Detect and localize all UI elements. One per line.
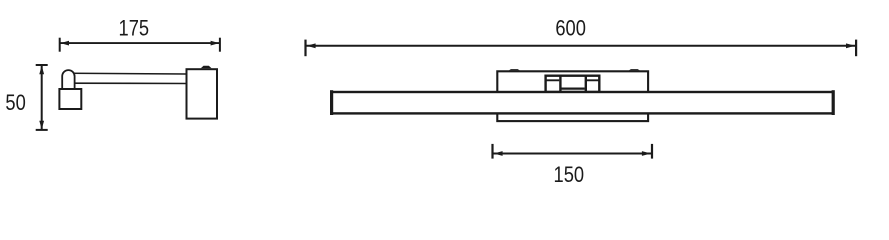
wall plate side view: [187, 69, 218, 118]
lamp head arch: [62, 70, 74, 89]
dim 150 line: [493, 153, 653, 155]
dim 150 right tick: [651, 144, 653, 159]
dim 175 right tick: [219, 38, 221, 52]
dim 600 right tick: [855, 40, 857, 57]
dim 175 left arrow: [60, 41, 69, 46]
lamp arm top line: [70, 72, 187, 75]
lamp bar left end cap: [330, 90, 333, 115]
dim 175 text: [119, 17, 150, 41]
svg-text:600: 600: [555, 17, 586, 41]
terminal divider left: [559, 75, 561, 93]
plate screw left: [509, 69, 520, 70]
terminal block outer: [546, 76, 600, 92]
lamp head body: [59, 89, 81, 109]
lamp bar right end cap: [832, 90, 835, 115]
dim 150 left arrow: [494, 151, 503, 156]
dim 175 left tick: [59, 38, 61, 52]
dim 175 right arrow: [211, 41, 220, 46]
dim 50 text: [5, 92, 25, 116]
wall plate front view: [497, 71, 648, 121]
dim 50 down arrow: [39, 121, 44, 130]
terminal left cell line: [547, 79, 560, 81]
dim 150 left tick: [491, 144, 493, 159]
lamp arm bottom line: [70, 82, 187, 84]
dim 600 left arrow: [307, 43, 316, 48]
dim 50 top tick: [36, 64, 48, 66]
dim 50 line: [41, 65, 43, 130]
dim 150 text: [554, 163, 585, 187]
dim 600 left tick: [304, 40, 306, 57]
dim 175 line: [60, 42, 220, 44]
dim 150 right arrow: [642, 151, 651, 156]
dim 600 right arrow: [846, 43, 855, 48]
terminal right cell line: [587, 79, 599, 81]
dim 50 up arrow: [39, 66, 44, 75]
dim 600 line: [306, 45, 857, 47]
svg-text:175: 175: [119, 17, 150, 41]
svg-text:50: 50: [5, 92, 25, 116]
lamp bar front view: [332, 92, 834, 113]
terminal divider right: [585, 75, 587, 93]
wall plate screw side view: [201, 66, 212, 68]
dim 50 bottom tick: [36, 129, 48, 131]
dim 600 text: [555, 17, 586, 41]
svg-text:150: 150: [554, 163, 585, 187]
plate screw right: [629, 69, 640, 70]
terminal middle cell line: [562, 87, 585, 89]
